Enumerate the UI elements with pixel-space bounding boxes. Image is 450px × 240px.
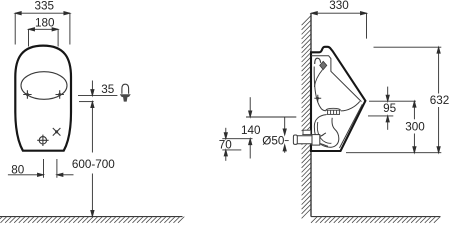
outlet pipe white cover bbox=[293, 135, 316, 144]
dimension diameter 50 bbox=[283, 117, 289, 153]
dimension 330 bbox=[311, 12, 366, 39]
svg-text:330: 330 bbox=[329, 0, 349, 12]
bottom extension line bbox=[346, 152, 441, 154]
svg-text:80: 80 bbox=[11, 164, 25, 177]
95 lower tick bbox=[368, 115, 393, 117]
side view fixing cross bbox=[314, 95, 321, 102]
pipe coupling at wall bbox=[312, 133, 328, 146]
siphon trap body bbox=[314, 115, 338, 148]
svg-text:35: 35 bbox=[101, 83, 115, 96]
outlet pipe body bbox=[293, 135, 316, 144]
drain symbol circle-cross bbox=[37, 135, 48, 146]
side view inner rim line bbox=[311, 56, 361, 102]
svg-text:600-700: 600-700 bbox=[72, 158, 115, 171]
svg-text:632: 632 bbox=[430, 94, 450, 107]
bottom edge tick left of wall bbox=[222, 149, 241, 151]
dimension 335 bbox=[15, 12, 70, 45]
floor line left bbox=[0, 216, 183, 218]
fixing hole cross left bbox=[23, 90, 31, 99]
side view outer outline bbox=[311, 47, 365, 151]
floor hatching right bbox=[311, 217, 440, 223]
svg-text:300: 300 bbox=[405, 121, 425, 134]
svg-text:Ø50: Ø50 bbox=[262, 135, 285, 148]
dimension 95 bbox=[386, 87, 389, 130]
dimension 140 bbox=[249, 97, 252, 158]
dimension 80 bbox=[8, 159, 74, 178]
side view bowl back curve bbox=[314, 67, 326, 111]
inlet level line left of wall bbox=[246, 116, 296, 118]
trap inner curves bbox=[317, 122, 331, 143]
dimension 600-700 bbox=[91, 102, 94, 217]
wall hatching bbox=[302, 16, 311, 219]
svg-text:95: 95 bbox=[383, 102, 397, 115]
dimension 632 bbox=[437, 47, 440, 153]
pipe centre tick bbox=[222, 138, 252, 140]
wall face line bbox=[310, 13, 312, 216]
svg-text:335: 335 bbox=[35, 0, 55, 12]
dimension 300 bbox=[413, 101, 416, 153]
floor line right bbox=[311, 216, 441, 218]
svg-text:180: 180 bbox=[35, 16, 55, 29]
svg-text:70: 70 bbox=[219, 138, 233, 151]
spreader icon bbox=[122, 84, 129, 94]
top extension line bbox=[374, 46, 442, 48]
vertex level line bbox=[369, 100, 416, 102]
wall bracket above pipe bbox=[303, 130, 311, 134]
front view bowl rim ellipse bbox=[21, 72, 67, 100]
spreader diamond bbox=[320, 61, 327, 69]
inner shell line lower slope bbox=[340, 104, 363, 148]
front view outer outline bbox=[15, 46, 71, 151]
svg-text:140: 140 bbox=[241, 124, 261, 137]
dimension 35 bbox=[78, 81, 117, 102]
side view bowl front curve bbox=[341, 101, 360, 111]
floor hatching left bbox=[0, 217, 184, 223]
dimension 180 bbox=[29, 28, 59, 47]
spreader pipe loop bbox=[315, 58, 321, 64]
lower fixing cross (diagonal) bbox=[53, 128, 61, 136]
fixing hole cross right bbox=[56, 90, 64, 99]
spray guide line bbox=[314, 70, 322, 87]
dimension 70 bbox=[224, 128, 227, 161]
drain flange bbox=[326, 108, 341, 114]
